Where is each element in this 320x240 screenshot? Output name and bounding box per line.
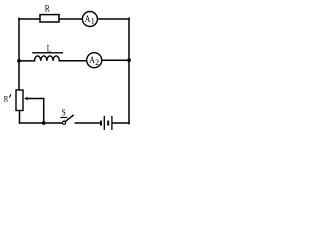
svg-text:R: R (45, 4, 50, 14)
svg-text:2: 2 (95, 58, 99, 67)
wire middle branch coil to A2 (59, 60, 86, 62)
wire switch to battery (75, 122, 100, 124)
battery cell plate tall 1 (103, 116, 105, 130)
inductor L coil (35, 56, 60, 61)
wire top-left (19, 18, 40, 20)
battery cell plate short 1 (100, 121, 102, 126)
wire A2 to right (102, 59, 129, 61)
battery cell plate short 2 (107, 121, 109, 126)
svg-text:R: R (4, 93, 9, 103)
wire left vertical (18, 18, 20, 90)
wire battery to bottom-right corner (112, 122, 129, 124)
resistor R (40, 15, 59, 22)
svg-text:A: A (89, 55, 95, 66)
battery cell plate tall 2 (111, 116, 113, 130)
node right junction (127, 58, 131, 62)
node slider junction (42, 121, 46, 125)
svg-text:1: 1 (91, 16, 95, 25)
label S underline (60, 117, 67, 119)
ammeter A1 (82, 12, 97, 27)
rheostat slider arrowhead (24, 97, 28, 101)
switch S pivot (62, 121, 65, 124)
wire middle branch left (19, 60, 35, 62)
rheostat R' (16, 90, 23, 111)
wire right vertical (128, 18, 130, 123)
node left junction (17, 59, 21, 63)
svg-text:L: L (47, 45, 52, 55)
wire slider arm vertical (43, 99, 45, 124)
svg-text:A: A (85, 14, 91, 25)
inductor L core line (32, 52, 63, 54)
wire slider arm horizontal (28, 98, 44, 100)
ammeter A2 (87, 53, 102, 68)
wire R to A1 (59, 18, 82, 20)
wire rheostat bottom stub (19, 111, 21, 124)
switch S lever (65, 115, 73, 122)
wire bottom-left to switch (20, 122, 63, 124)
wire A1 to top-right corner (98, 18, 130, 20)
